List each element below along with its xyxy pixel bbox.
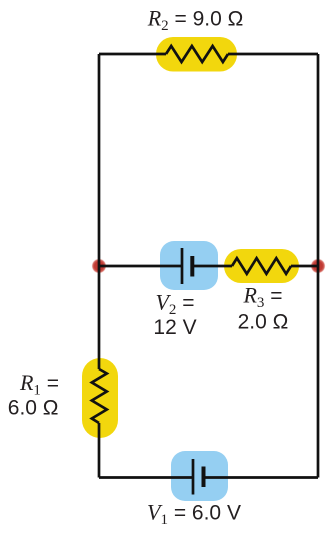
svg-text:6.0 Ω: 6.0 Ω [8, 397, 59, 420]
svg-text:2.0 Ω: 2.0 Ω [238, 311, 289, 334]
svg-text:12 V: 12 V [153, 316, 196, 339]
